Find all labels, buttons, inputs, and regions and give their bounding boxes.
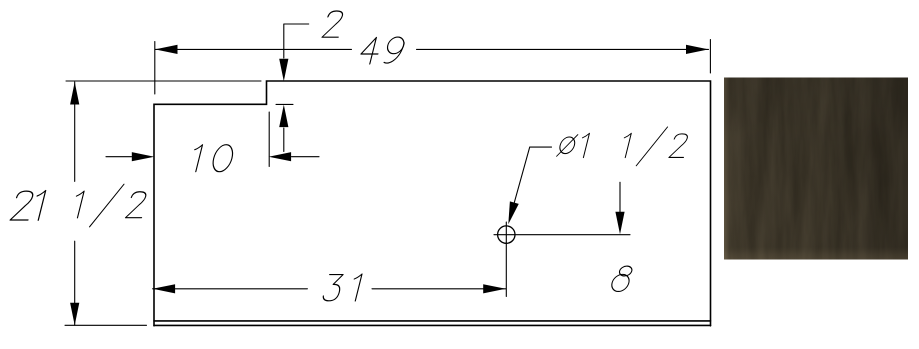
arrow 31 right [483,284,506,293]
dim 10 line left [106,156,132,158]
text 49 [358,37,405,64]
arrow 2 upper (down) [279,59,288,82]
part outline (notched rectangle) [154,81,711,326]
dim 2 ext stub [276,103,293,105]
arrow 21.5 top [70,82,79,105]
arrow 31 left [153,284,176,293]
dim 10 line right [292,156,320,158]
dim 49 ext right [709,40,711,74]
dim 21 1/2 ext top [66,80,261,82]
arrow 10 left (points right) [132,152,155,161]
dim 49 line [155,48,709,50]
text 21 1/2 [8,184,149,227]
text dia 1 1/2 [554,127,691,166]
dim 49 ext left [154,42,156,95]
hole center vertical line [505,222,507,297]
wood texture swatch [724,78,908,260]
dim 21 1/2 line [74,82,76,325]
dim 21 1/2 ext bottom [65,324,147,326]
leader arrow at hole [504,201,519,225]
arrow 8 (down) [615,212,624,235]
leader to hole [510,147,552,218]
dim 10 ext [268,112,270,167]
arrow 2 lower (up) [279,105,288,128]
hole circle [498,226,515,243]
text 31 [322,274,362,301]
arrow 10 right (points left) [269,152,292,161]
dim 8 tail [619,182,621,212]
arrow 49 right [686,45,709,54]
arrow 21.5 bottom [70,303,79,326]
hole center horizontal line / dim 8 ext [494,234,630,236]
dim 2 lower tail [283,128,285,152]
text 10 [189,145,235,172]
bottom edge line lower [154,324,711,326]
text 8 [610,266,633,291]
dim 2 leader [284,24,309,58]
text 2 [322,11,345,37]
arrow 49 left [155,45,178,54]
bottom edge line upper [154,320,711,322]
dim 31 line [153,288,506,290]
